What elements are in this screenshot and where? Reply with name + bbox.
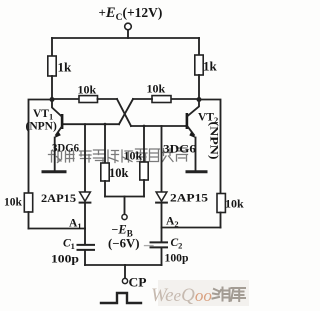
svg-text:100p: 100p [51, 251, 79, 265]
node base VT2 / R6 junction [143, 125, 146, 128]
wire left branch to collector node [51, 76, 53, 100]
wire right coupling to cross [171, 98, 199, 100]
resistor R6 10k (VT2 base bias) [140, 162, 148, 180]
resistor R2 10k (right, collector to A2) [217, 194, 225, 213]
wire CP tap [124, 265, 126, 278]
svg-text:10k: 10k [4, 197, 23, 209]
wire far-right column to A2 [220, 213, 222, 228]
diode VD1 2AP15 [80, 192, 91, 203]
svg-text:10k: 10k [147, 82, 166, 96]
resistor R1 10k (left, collector to A1) [24, 193, 32, 212]
ground VT2 emitter [187, 170, 206, 173]
wire C1 to CP rail [84, 250, 86, 265]
node collector VT2 [197, 97, 202, 102]
node base VT1 / R5 junction [104, 123, 107, 126]
capacitor C1 100p [78, 245, 95, 250]
wire far-left column to A1 [28, 212, 30, 229]
wire right branch to collector node [198, 75, 200, 100]
wire R6 to -EB rail [143, 180, 145, 197]
terminal -EB [122, 214, 127, 219]
resistor Rc1 1k (left collector) [48, 56, 56, 76]
wire coupling resistor right to cross [133, 98, 152, 100]
svg-text:3DG6: 3DG6 [163, 144, 196, 156]
node collector VT1 [50, 97, 55, 102]
resistor R4 10k (right coupling) [152, 96, 171, 103]
stray scan mark near C2 [145, 245, 154, 247]
svg-text:2AP15: 2AP15 [41, 191, 76, 205]
svg-text:C1: C1 [63, 238, 75, 252]
resistor Rc2 1k (right collector) [195, 55, 203, 75]
capacitor C2 100p [151, 242, 168, 247]
wire base VT1 to R5 [104, 124, 106, 163]
svg-text:(−6V): (−6V) [108, 236, 140, 250]
svg-text:3DG6: 3DG6 [52, 143, 79, 155]
ground VT1 emitter [43, 170, 65, 173]
wire collector node to far-left column [29, 100, 53, 194]
svg-text:A1: A1 [69, 218, 82, 232]
transistor VT1 [52, 100, 63, 171]
wire collector VT1 to coupling resistor [52, 98, 79, 100]
wire base VT2 to R6 [143, 126, 145, 162]
resistor R5 10k (VT1 base bias) [101, 163, 109, 181]
svg-text:WeeQoo: WeeQoo [151, 285, 212, 306]
wire collector node to far-right column [199, 100, 221, 194]
watermark 杭州将睿科技有限公司 [49, 148, 188, 163]
resistor R3 10k (left coupling) [79, 96, 98, 103]
wire base VT2 [131, 125, 186, 127]
svg-text:10k: 10k [225, 197, 244, 211]
svg-text:2AP15: 2AP15 [170, 190, 208, 204]
wire base VT1 [63, 123, 120, 125]
svg-text:100p: 100p [165, 250, 189, 264]
wire cross diagonal left-to-right base [117, 99, 131, 126]
svg-text:1k: 1k [203, 59, 218, 74]
wire -EB rail [105, 196, 144, 198]
svg-text:VT1: VT1 [33, 108, 53, 122]
watermark WeeQoo box [151, 280, 249, 306]
wire cross diagonal right-to-left base [119, 99, 133, 124]
wire VD1 to A1 [84, 203, 86, 229]
svg-text:10k: 10k [109, 166, 129, 180]
power terminal +Ec [125, 23, 132, 38]
svg-text:10k: 10k [78, 83, 97, 97]
wire base VT1 to diode VD1 [84, 124, 86, 192]
wire node A2 [162, 227, 221, 229]
wire node A1 [29, 228, 86, 230]
wire -EB tap [124, 197, 126, 215]
svg-text:C2: C2 [171, 237, 183, 251]
wire base VT2 to diode VD2 [161, 126, 163, 192]
svg-text:(NPN): (NPN) [26, 121, 57, 133]
svg-text:(NPN): (NPN) [208, 122, 220, 160]
svg-text:1k: 1k [58, 60, 73, 75]
wire right branch from rail [198, 38, 200, 55]
wire R5 to -EB rail [104, 181, 106, 197]
wire top rail [52, 37, 199, 39]
terminal CP [122, 278, 127, 283]
svg-text:10k: 10k [124, 149, 143, 163]
wire coupling resistor to cross [98, 98, 118, 100]
transistor VT2 [186, 100, 199, 171]
svg-text:+EC(+12V): +EC(+12V) [99, 5, 163, 23]
wire C2 to CP rail [161, 248, 163, 266]
svg-text:CP: CP [129, 276, 147, 290]
wire CP rail [85, 264, 162, 266]
wire A1 to C1 [84, 229, 86, 245]
pulse waveform symbol [101, 293, 141, 303]
wire left branch from rail [51, 38, 53, 56]
wire VD2 to A2 [161, 203, 163, 242]
diode VD2 2AP15 [156, 192, 167, 203]
